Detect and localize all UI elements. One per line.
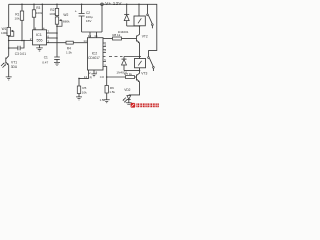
svg-text:R3: R3 [36,6,40,10]
terminal V+ 12V [101,1,123,6]
resistor R3 100k [32,4,43,30]
svg-text:555: 555 [37,39,43,43]
transistor VT3 [129,71,148,95]
wire IC1 pin6 [47,37,58,39]
wire relay J1 bottom [127,25,141,27]
watermark logo [131,103,136,108]
svg-text:100k: 100k [49,12,56,16]
svg-text:1N4001: 1N4001 [118,30,129,34]
svg-text:VD2: VD2 [124,88,130,92]
wire 555 threshold column [56,24,58,57]
wire IC2 right stubs [103,43,106,62]
svg-text:1.5k: 1.5k [100,98,106,102]
transistor VT2 [137,26,148,57]
wire relay J2 bottom [124,70,140,72]
wire relay J2 top [124,56,141,58]
resistor R8 1k [103,33,137,40]
capacitor C3 0.01 [8,41,26,57]
svg-text:C3 0.01: C3 0.01 [15,52,26,56]
svg-text:13: 13 [84,75,88,79]
ground IC1 pin1 [36,45,43,51]
resistor R1 10k [15,4,24,40]
wire IC2 pin13 reset [78,70,92,79]
resistor R2 100k [49,4,58,17]
ground VT1 emitter [6,77,12,80]
resistor R6 1.5k [105,86,115,100]
svg-text:0.47: 0.47 [42,61,48,65]
relay J1 coil [134,4,145,26]
switch contact J1-1 [147,4,154,28]
watermark text [136,103,159,107]
potentiometer W2 680k [55,13,70,26]
svg-text:16V: 16V [86,19,92,23]
wire IC2 feed to R6/R7 [103,67,107,86]
svg-text:16: 16 [94,34,98,38]
wire IC1 pin7 [47,32,58,34]
potentiometer W1 100k [1,27,14,37]
ground C1 [54,62,60,65]
diode 1N4001 (relay J2 flyback) [116,57,127,75]
IC1 555 [30,26,50,45]
wire top supply rail [9,4,157,50]
svg-text:IC2: IC2 [92,52,98,56]
svg-text:V+ 12V: V+ 12V [105,1,122,6]
svg-text:C1: C1 [44,56,48,60]
svg-text:10k: 10k [15,17,20,21]
ground R6 [104,100,110,103]
ground IC2 pin8 [91,70,96,77]
svg-text:IC1: IC1 [36,33,42,37]
svg-text:14: 14 [88,34,92,38]
switch contact J2-1 [148,50,155,71]
ground R5 [76,97,82,100]
capacitor C1 0.47 [42,56,60,65]
svg-text:1.5k: 1.5k [109,90,115,94]
svg-text:CD4017: CD4017 [88,56,100,60]
svg-text:R7 1k: R7 1k [124,72,132,76]
resistor R4 1.5k [66,41,88,54]
svg-text:+: + [75,9,77,13]
svg-text:3DU: 3DU [11,65,18,69]
LED VD2 [123,88,131,103]
svg-text:W2: W2 [63,13,68,17]
svg-text:VT2: VT2 [142,35,148,39]
ground LED [126,103,132,105]
wire IC1 pin3 output [47,42,67,44]
resistor R5 10k [77,78,87,96]
svg-text:10k: 10k [82,90,87,94]
svg-text:VT3: VT3 [141,72,147,76]
wire IC1 pin2 net [8,40,33,42]
resistor R7 1k [107,72,137,78]
wire dashed link [103,56,123,58]
wire IC1 pin4 to rail [41,4,43,30]
wire left column [8,4,10,56]
wire Vdd feed to IC2 [82,6,102,38]
diode 1N4001 (relay J1 flyback) [118,4,130,34]
svg-text:1.5k: 1.5k [66,51,72,55]
svg-text:680k: 680k [63,19,70,23]
node rail junction dots [21,4,140,6]
relay J2 coil [135,57,146,71]
IC2 CD4017 [83,34,106,102]
svg-text:100k: 100k [1,31,8,35]
svg-text:14: 14 [83,39,87,43]
phototransistor VT1 3DU [1,56,18,77]
capacitor C2 100u 16V [75,4,93,32]
